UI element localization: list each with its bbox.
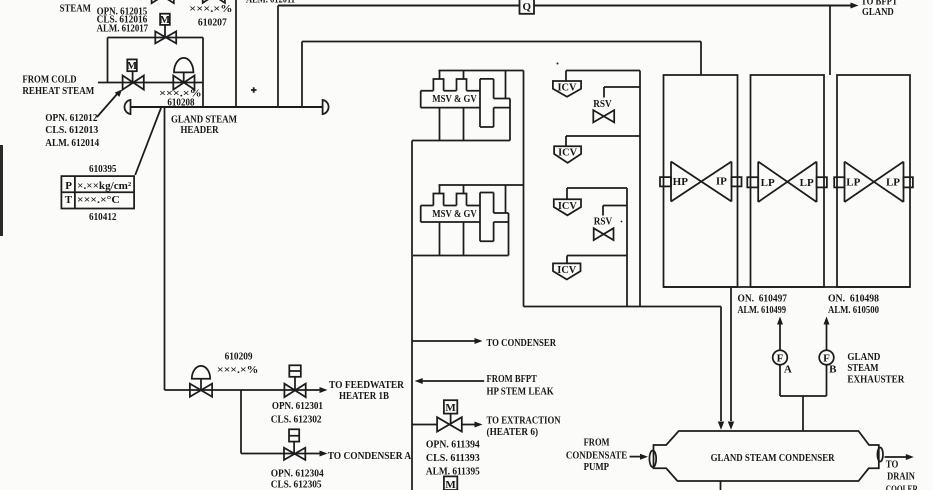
svg-text:STEAM: STEAM [60, 3, 92, 15]
svg-text:FROM: FROM [584, 436, 610, 448]
svg-text:TO: TO [886, 459, 899, 471]
svg-text:CONDENSATE: CONDENSATE [566, 449, 627, 461]
svg-text:ICV: ICV [558, 82, 577, 94]
scan edge artifact [0, 145, 3, 236]
wire vertical x203 (bypass to header) [202, 38, 204, 108]
wire RSV1 branch [604, 87, 640, 98]
P/T instrument table [61, 176, 134, 208]
svg-text:P: P [65, 180, 72, 192]
MSV & GV upper steam chest [412, 71, 524, 141]
gland steam header pipe [131, 106, 323, 108]
svg-text:ALM. 610499: ALM. 610499 [738, 304, 787, 316]
svg-text:EXHAUSTER: EXHAUSTER [847, 373, 905, 385]
turbine LP-LP rotor 2 [834, 162, 913, 202]
svg-text:M: M [445, 479, 456, 490]
svg-text:COOLER: COOLER [886, 484, 919, 490]
turbine HP-IP rotor [660, 162, 742, 202]
svg-text:M: M [160, 14, 171, 26]
svg-text:GLAND: GLAND [847, 351, 880, 363]
partial valve at top edge (cropped) [152, 0, 174, 3]
wire bypass line [108, 37, 204, 39]
control valve 610208 [173, 76, 194, 90]
svg-text:CLS. 612305: CLS. 612305 [271, 479, 322, 490]
svg-text:MSV & GV: MSV & GV [432, 208, 477, 220]
valve 612012 [123, 76, 144, 90]
valve 612015 (bypass) [155, 31, 176, 43]
svg-text:T: T [65, 194, 73, 206]
casing bottom line [664, 286, 911, 288]
svg-text:Q: Q [523, 1, 532, 13]
header left end cap [124, 100, 130, 114]
arrow to drain cooler [885, 456, 907, 458]
svg-text:LP: LP [846, 177, 860, 189]
svg-text:610412: 610412 [89, 211, 117, 223]
svg-text:OPN. 612012: OPN. 612012 [45, 112, 98, 124]
valve 612301 actuator [289, 365, 301, 377]
speck near RSV2 [621, 221, 623, 223]
ICV 2 [554, 146, 581, 163]
condenser right nozzle [877, 448, 883, 462]
arrow condensate inlet [630, 456, 641, 458]
svg-text:TO EXTRACTION: TO EXTRACTION [487, 415, 561, 427]
svg-text:DRAIN: DRAIN [887, 471, 915, 483]
gland steam condenser vessel [654, 431, 879, 481]
wire branch TO CONDENSER [412, 340, 476, 342]
condenser left nozzle [649, 451, 656, 468]
wire ICV group2 branch3 [567, 188, 627, 199]
svg-text:FROM COLD: FROM COLD [22, 73, 76, 85]
wire gland leakoff drop x731 [730, 287, 732, 421]
flow meter F A [773, 350, 788, 365]
control valve 610209 dome [192, 366, 210, 379]
flow meter F B arrow up [826, 324, 828, 350]
svg-text:ICV: ICV [557, 264, 576, 276]
svg-text:HP STEM LEAK: HP STEM LEAK [487, 386, 555, 398]
wire condenser bottom drop [720, 481, 722, 490]
svg-text:610209: 610209 [225, 351, 253, 363]
wire header drop x164.5 [164, 107, 166, 390]
wire top line to BFPT gland [278, 5, 852, 7]
speck [557, 63, 559, 65]
ICV 3 [554, 199, 581, 215]
turbine LP-LP rotor 1 [747, 162, 827, 202]
svg-text:F: F [823, 352, 830, 364]
svg-text:×××.×%: ×××.×% [217, 364, 259, 376]
valve 612304 actuator [289, 429, 299, 441]
svg-text:CLS. 612302: CLS. 612302 [271, 413, 322, 425]
wire vertical x236 (to cropped top) [235, 0, 237, 107]
wire branch down x241 [240, 390, 242, 454]
valve RSV 2 [594, 228, 614, 240]
flow meter F A arrow up [779, 324, 781, 350]
partial valve at top edge 2 (cropped) [203, 0, 225, 3]
wire ICV group1 branch2 [566, 136, 640, 146]
ICV 4 [553, 263, 581, 279]
valve 612301 [284, 384, 305, 398]
svg-text:GLAND: GLAND [862, 6, 894, 18]
wire gland leakoff drop x721 [720, 307, 722, 422]
svg-text:LP: LP [761, 177, 775, 189]
svg-text:×.××kg/cm²: ×.××kg/cm² [77, 180, 132, 192]
svg-text:CLS. 612013: CLS. 612013 [45, 124, 98, 136]
wire vertical x830 (to LP glands) [829, 6, 831, 76]
valve 611394 [437, 417, 462, 431]
wire vertical x302 [301, 42, 303, 108]
svg-text:HEADER: HEADER [181, 124, 220, 136]
svg-text:CLS. 611393: CLS. 611393 [426, 452, 480, 464]
wire drain line 1 [165, 389, 322, 391]
wire vertical x278 [277, 6, 279, 108]
turbine casing HP/IP [664, 75, 738, 287]
svg-text:ICV: ICV [558, 200, 577, 212]
svg-text:LP: LP [886, 177, 900, 189]
wire exhauster collection [780, 365, 827, 431]
svg-text:PUMP: PUMP [584, 461, 610, 473]
motor box M for valve 612015 [160, 14, 170, 25]
arrow from labels to valve 612012 [97, 93, 118, 117]
svg-text:M: M [127, 60, 138, 72]
wire ICV group1 branch1 [566, 71, 640, 82]
wire bypass left vertical [107, 38, 109, 83]
control valve 610209 [190, 384, 212, 397]
svg-text:HEATER 1B: HEATER 1B [339, 390, 390, 402]
svg-text:RSV: RSV [594, 215, 612, 227]
wire vertical x701 into HP/IP casing [700, 42, 702, 76]
wire branch TO EXTRACTION [412, 424, 476, 426]
diagonal leader to P/T table [135, 108, 161, 175]
svg-text:GLAND STEAM CONDENSER: GLAND STEAM CONDENSER [711, 452, 836, 464]
wire ICV group1 right vertical x640 [639, 71, 641, 307]
wire ICV group2 branch4 [567, 256, 627, 264]
turbine casing LP 1 [751, 75, 825, 287]
turbine casing LP 2 [837, 75, 910, 287]
valve 612304 [284, 448, 305, 460]
control valve 610208 actuator dome [174, 58, 193, 72]
instrument box Q on top line [520, 0, 535, 14]
svg-text:REHEAT STEAM: REHEAT STEAM [22, 85, 94, 97]
wire leakoff bottom manifold [524, 306, 722, 308]
svg-text:F: F [777, 352, 784, 364]
svg-text:×××.×°C: ×××.×°C [77, 194, 120, 206]
svg-text:610207: 610207 [198, 16, 227, 28]
wire x523.5 vertical (MSV manifold to leakoff) [523, 71, 525, 307]
valve RSV 1 [593, 110, 614, 122]
wire inlet line [98, 82, 203, 84]
svg-text:ALM. 612017: ALM. 612017 [97, 22, 149, 34]
svg-text:ALM. 610500: ALM. 610500 [828, 304, 879, 316]
svg-text:OPN. 612301: OPN. 612301 [272, 400, 323, 412]
svg-text:TO CONDENSER: TO CONDENSER [487, 337, 557, 349]
svg-text:×××.×%: ×××.×% [189, 3, 232, 15]
svg-text:ON. 610497: ON. 610497 [738, 293, 788, 305]
wire ICV group2 right vertical x627 [626, 188, 628, 307]
svg-text:ICV: ICV [558, 147, 577, 159]
svg-text:(HEATER 6): (HEATER 6) [487, 426, 539, 438]
wire RSV2 branch [603, 206, 627, 216]
svg-text:RSV: RSV [593, 98, 611, 110]
motor box M (cropped at bottom) [444, 476, 457, 490]
MSV & GV lower steam chest [413, 185, 524, 256]
svg-text:A: A [784, 364, 792, 376]
svg-text:HP: HP [673, 176, 689, 188]
flow meter F B [819, 350, 834, 365]
svg-text:TO CONDENSER A: TO CONDENSER A [328, 450, 412, 462]
ICV 1 [553, 81, 581, 97]
svg-text:LP: LP [800, 177, 814, 189]
wire drain line 2 [241, 453, 321, 455]
svg-text:ON. 610498: ON. 610498 [828, 293, 879, 305]
svg-text:610395: 610395 [89, 163, 117, 175]
wire MSV supply vertical x412 [411, 141, 413, 490]
header right end cap [323, 100, 329, 114]
motor box M for valve 612012 [127, 59, 137, 71]
svg-text:M: M [445, 402, 456, 414]
svg-text:STEAM: STEAM [847, 362, 879, 374]
wire branch FROM BFPT (arrow into line) [422, 380, 484, 382]
svg-text:OPN. 611394: OPN. 611394 [426, 439, 480, 451]
svg-text:MSV & GV: MSV & GV [432, 93, 477, 105]
motor box M for valve 611394 [444, 400, 457, 413]
svg-text:B: B [829, 364, 837, 376]
svg-text:FROM BFPT: FROM BFPT [487, 373, 538, 385]
wire line y41.5 to HP/IP gland [302, 41, 701, 43]
svg-text:OPN. 612304: OPN. 612304 [271, 467, 324, 479]
svg-text:ALM. 612014: ALM. 612014 [45, 137, 99, 149]
plus speck [251, 87, 257, 93]
svg-text:IP: IP [716, 175, 727, 187]
